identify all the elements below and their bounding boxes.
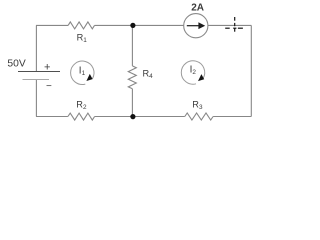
svg-text:I2: I2: [190, 64, 197, 76]
svg-text:2A: 2A: [191, 2, 204, 13]
svg-text:R2: R2: [76, 99, 87, 111]
svg-text:R1: R1: [77, 33, 88, 45]
svg-text:R4: R4: [143, 68, 154, 80]
svg-text:+: +: [44, 62, 50, 74]
svg-text:50V: 50V: [7, 59, 25, 70]
svg-text:R3: R3: [192, 100, 203, 112]
svg-text:I1: I1: [79, 65, 86, 77]
svg-text:−: −: [46, 81, 52, 92]
